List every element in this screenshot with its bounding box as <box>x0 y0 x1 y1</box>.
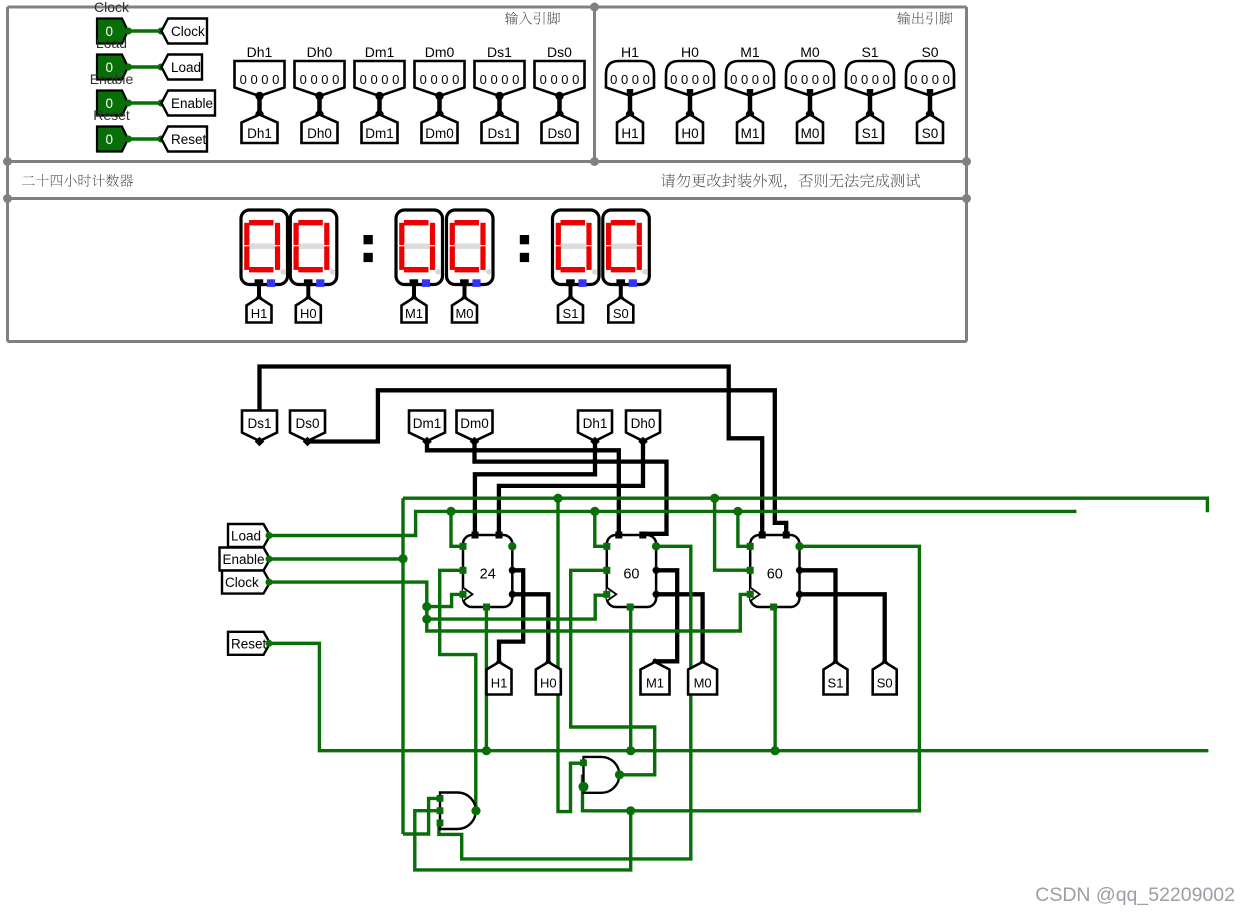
input pin Ds0 4-bit <box>535 61 585 96</box>
AND gate G1 (3-input, hours enable) <box>437 793 481 830</box>
tunnel Reset <box>162 127 208 152</box>
svg-text:M1: M1 <box>405 306 423 321</box>
tunnel S1 <box>857 115 883 144</box>
tunnel S0 <box>917 115 943 144</box>
svg-text:0 0 0 0: 0 0 0 0 <box>480 72 520 87</box>
input pin Clock (value 0) <box>97 19 128 44</box>
tunnel S1 (schematic output) <box>824 658 848 695</box>
wire Load to counter1 <box>451 511 463 546</box>
svg-text:Dh0: Dh0 <box>307 44 333 60</box>
tunnel Dh0 (schematic) <box>626 411 660 447</box>
svg-text:0 0 0 0: 0 0 0 0 <box>670 72 710 87</box>
input pin Dh1 4-bit <box>235 61 285 96</box>
svg-text:0 0 0 0: 0 0 0 0 <box>300 72 340 87</box>
tunnel H0 (schematic output) <box>536 658 561 695</box>
junction Reset to counter3 <box>771 746 780 755</box>
svg-text:Dh1: Dh1 <box>247 126 272 141</box>
wire display stem M0 <box>459 285 471 302</box>
svg-text:0 0 0 0: 0 0 0 0 <box>850 72 890 87</box>
svg-text:S1: S1 <box>862 126 879 141</box>
svg-text:M0: M0 <box>694 676 712 691</box>
counter U1 (24) <box>460 532 517 611</box>
frame junction dots <box>3 3 971 204</box>
svg-text:H1: H1 <box>621 44 639 60</box>
svg-text:0 0 0 0: 0 0 0 0 <box>240 72 280 87</box>
wire M1 pin to tunnel <box>746 89 754 119</box>
svg-text:H1: H1 <box>621 126 638 141</box>
wire H1 net <box>499 570 523 662</box>
svg-text:Dm1: Dm1 <box>365 44 395 60</box>
wire Enable top bus <box>403 498 1207 512</box>
wire Reset riser counter2 <box>629 607 632 751</box>
wire Load bus <box>270 511 1076 535</box>
output pin M0 4-bit <box>786 61 834 96</box>
svg-text:0 0 0 0: 0 0 0 0 <box>360 72 400 87</box>
wire stub above AND2 input B <box>581 775 584 787</box>
AND gate G2 (2-input, minutes enable) <box>579 757 625 793</box>
svg-text:Ds1: Ds1 <box>487 126 511 141</box>
counter U3 (60) <box>747 532 804 611</box>
tunnel S1 (display) <box>558 298 583 323</box>
svg-text:24: 24 <box>480 567 496 583</box>
wire Clock to counter1 <box>427 594 463 606</box>
svg-text:Reset: Reset <box>93 107 130 123</box>
wire AND2 output to counter2 enable <box>571 570 655 775</box>
svg-text:Dh0: Dh0 <box>631 416 656 431</box>
junction Load bus to counter1 <box>446 507 455 516</box>
tunnel Dm0 (schematic) <box>457 411 493 447</box>
wire M0 pin to tunnel <box>806 89 814 119</box>
output pin H1 4-bit <box>606 61 654 96</box>
output pin H0 4-bit <box>666 61 714 96</box>
svg-text:Dm0: Dm0 <box>425 44 455 60</box>
svg-text:0 0 0 0: 0 0 0 0 <box>610 72 650 87</box>
wire Dm0 pin to tunnel <box>435 92 443 119</box>
tunnel Load (schematic) <box>228 524 273 547</box>
svg-text:S0: S0 <box>922 126 939 141</box>
wire Reset riser counter3 <box>773 607 776 751</box>
svg-text:S1: S1 <box>563 306 579 321</box>
tunnel Enable <box>162 91 216 116</box>
wire S0 net <box>799 594 884 662</box>
svg-text:M0: M0 <box>801 126 820 141</box>
tunnel H0 (display) <box>296 298 321 323</box>
seven-segment display 2 <box>290 210 337 287</box>
tunnel S0 (schematic output) <box>873 658 897 695</box>
svg-text:Ds1: Ds1 <box>247 416 271 431</box>
svg-text:0: 0 <box>106 132 114 147</box>
tunnel Load <box>162 55 203 80</box>
seven-segment display 6 <box>603 210 650 287</box>
svg-text:S0: S0 <box>613 306 629 321</box>
tunnel Dh1 (schematic) <box>578 411 612 447</box>
colon 1 <box>364 235 373 262</box>
svg-text:0 0 0 0: 0 0 0 0 <box>910 72 950 87</box>
svg-text:H0: H0 <box>540 676 557 691</box>
wire H0 pin to tunnel <box>686 89 694 119</box>
svg-text:S1: S1 <box>828 676 844 691</box>
svg-text:Enable: Enable <box>90 71 134 87</box>
svg-text:Load: Load <box>231 529 261 544</box>
svg-text:H1: H1 <box>251 306 268 321</box>
svg-text:60: 60 <box>623 567 639 583</box>
svg-text:Enable: Enable <box>223 552 265 567</box>
tunnel M1 <box>737 115 763 144</box>
wire Ds0 pin to tunnel <box>555 92 563 119</box>
svg-text:0 0 0 0: 0 0 0 0 <box>540 72 580 87</box>
svg-text:CSDN @qq_52209002: CSDN @qq_52209002 <box>1035 884 1235 906</box>
tunnel H1 <box>617 115 643 144</box>
label 请勿更改封装外观，否则无法完成测试 <box>661 174 920 190</box>
label 二十四小时计数器 <box>22 174 133 187</box>
label 输入引脚 <box>505 12 560 25</box>
seven-segment display 4 <box>447 210 494 287</box>
wire Clock pin to tunnel <box>125 28 165 35</box>
svg-text:Dh1: Dh1 <box>247 44 273 60</box>
junction Reset to counter1 <box>482 746 491 755</box>
svg-text:0 0 0 0: 0 0 0 0 <box>790 72 830 87</box>
tunnel M0 <box>797 115 823 144</box>
wire display stem H1 <box>253 285 265 302</box>
tunnel H1 (display) <box>247 298 272 323</box>
svg-text:M0: M0 <box>455 306 473 321</box>
svg-text:Clock: Clock <box>225 575 259 590</box>
wire Dh1 pin to tunnel <box>255 92 263 119</box>
tunnel H1 (schematic output) <box>487 658 512 695</box>
junction Reset to counter2 <box>626 746 635 755</box>
svg-text:Clock: Clock <box>171 24 205 39</box>
svg-text:Clock: Clock <box>94 0 130 15</box>
tunnel M1 (schematic output) <box>641 658 670 695</box>
wire Load pin to tunnel <box>125 64 165 71</box>
wire Clock to counter2 <box>427 595 607 619</box>
svg-text:0 0 0 0: 0 0 0 0 <box>730 72 770 87</box>
junction Load bus to counter3 <box>733 507 742 516</box>
wire Enable drop to counter3 enable <box>715 498 751 570</box>
svg-text:Ds0: Ds0 <box>295 416 319 431</box>
tunnel Dh1 <box>242 115 278 144</box>
label 输出引脚 <box>897 12 952 25</box>
tunnel Reset (schematic) <box>228 632 273 655</box>
tunnel Dm0 <box>422 115 458 144</box>
wire Dh0 pin to tunnel <box>315 92 323 119</box>
svg-text:Enable: Enable <box>171 96 213 111</box>
wire Enable to AND1 input A <box>403 798 440 834</box>
tunnel Enable (schematic) <box>220 548 273 571</box>
wire minutes-carry to AND1 input C <box>439 546 691 859</box>
wire S0 pin to tunnel <box>926 89 934 119</box>
svg-text:Ds0: Ds0 <box>547 126 571 141</box>
wire Reset trunk <box>270 643 1208 750</box>
wire Enable drop to AND2 input A <box>558 498 584 811</box>
tunnel H0 <box>677 115 703 144</box>
svg-text:H0: H0 <box>681 44 699 60</box>
tunnel M1 (display) <box>402 298 427 323</box>
svg-text:Load: Load <box>96 35 127 51</box>
wire Clock trunk <box>270 582 750 631</box>
tunnel Ds1 (schematic) <box>242 411 277 447</box>
wire Ds1 pin to tunnel <box>495 92 503 119</box>
junction Enable bus drop B <box>710 494 719 503</box>
wire M1 net <box>655 570 677 662</box>
wire Load to counter3 <box>738 511 750 546</box>
svg-text:H1: H1 <box>491 676 508 691</box>
svg-text:M1: M1 <box>741 126 760 141</box>
input pin Dm0 4-bit <box>415 61 465 96</box>
tunnel Ds0 (schematic) <box>290 411 325 447</box>
tunnel Dm1 <box>362 115 398 144</box>
wire display stem S0 <box>615 285 627 302</box>
svg-text:Dm0: Dm0 <box>460 416 489 431</box>
wire seconds-carry net <box>583 546 920 811</box>
wire Dh1 net <box>475 442 595 536</box>
wire seconds-carry branch to AND1 input B <box>415 811 631 870</box>
input pin Ds1 4-bit <box>475 61 525 96</box>
junction Clock to counter1 <box>422 602 431 611</box>
svg-text:Dh1: Dh1 <box>583 416 608 431</box>
junction Load bus to counter2 <box>590 507 599 516</box>
junction Enable tunnel tap <box>398 554 407 563</box>
wire Enable tunnel to bus <box>270 557 404 560</box>
junction Clock to counter2 <box>422 615 431 624</box>
tunnel Clock (schematic) <box>222 571 273 594</box>
wire display stem H0 <box>302 285 314 302</box>
output pin S1 4-bit <box>846 61 894 96</box>
wire AND1 output to counter1 enable <box>440 570 476 810</box>
output pin M1 4-bit <box>726 61 774 96</box>
colon 2 <box>520 235 529 262</box>
svg-text:M1: M1 <box>740 44 760 60</box>
tunnel S0 (display) <box>608 298 633 323</box>
input pin Dm1 4-bit <box>355 61 405 96</box>
svg-text:Dh0: Dh0 <box>307 126 332 141</box>
wire Enable vertical <box>401 498 404 834</box>
wire M0 net <box>656 594 703 662</box>
input pin Enable (value 0) <box>97 91 128 116</box>
seven-segment display 5 <box>553 210 600 287</box>
svg-text:Dm1: Dm1 <box>365 126 394 141</box>
wire display stem M1 <box>408 285 420 302</box>
svg-text:Reset: Reset <box>231 636 267 651</box>
tunnel Dh0 <box>302 115 338 144</box>
wire Reset riser counter1 <box>485 607 488 751</box>
wire Reset pin to tunnel <box>125 136 165 143</box>
svg-text:Ds1: Ds1 <box>487 44 512 60</box>
junction carry net branch <box>626 806 635 815</box>
wire Enable pin to tunnel <box>125 100 165 107</box>
wire Dh0 net <box>499 442 643 536</box>
svg-text:H0: H0 <box>300 306 317 321</box>
tunnel M0 (display) <box>452 298 477 323</box>
svg-text:Dm0: Dm0 <box>425 126 454 141</box>
input pin Load (value 0) <box>97 55 128 80</box>
svg-text:Load: Load <box>171 60 201 75</box>
wire S1 pin to tunnel <box>866 89 874 119</box>
svg-text:0 0 0 0: 0 0 0 0 <box>420 72 460 87</box>
counter U2 (60) <box>603 532 660 611</box>
svg-text:S1: S1 <box>861 44 878 60</box>
input pin Reset (value 0) <box>97 127 128 152</box>
wire Ds1 net <box>260 367 763 536</box>
svg-text:60: 60 <box>767 567 783 583</box>
tunnel Ds1 <box>482 115 518 144</box>
wire display stem S1 <box>565 285 577 302</box>
svg-text:Dm1: Dm1 <box>413 416 442 431</box>
output pin S0 4-bit <box>906 61 954 96</box>
tunnel M0 (schematic output) <box>688 658 717 695</box>
svg-text:S0: S0 <box>877 676 893 691</box>
wire Dm1 net <box>427 442 619 536</box>
tunnel Clock <box>162 19 208 44</box>
svg-text:M1: M1 <box>646 676 664 691</box>
tunnel Ds0 <box>542 115 578 144</box>
seven-segment display 1 <box>241 210 288 287</box>
wire S1 net <box>799 570 835 662</box>
input pin Dh0 4-bit <box>295 61 345 96</box>
svg-text:S0: S0 <box>921 44 938 60</box>
svg-text:Ds0: Ds0 <box>547 44 572 60</box>
seven-segment display 3 <box>396 210 443 287</box>
wire Ds0 net <box>308 390 787 535</box>
wire Dm0 net <box>475 442 667 536</box>
frame input-section border <box>8 7 967 342</box>
wire H1 pin to tunnel <box>626 89 634 119</box>
wire H0 net <box>513 594 549 662</box>
wire Load to counter2 <box>595 511 607 546</box>
svg-text:Reset: Reset <box>171 132 207 147</box>
tunnel Dm1 (schematic) <box>409 411 445 447</box>
wire Dm1 pin to tunnel <box>375 92 383 119</box>
svg-text:H0: H0 <box>681 126 698 141</box>
svg-text:M0: M0 <box>800 44 820 60</box>
junction Enable bus drop A <box>553 494 562 503</box>
